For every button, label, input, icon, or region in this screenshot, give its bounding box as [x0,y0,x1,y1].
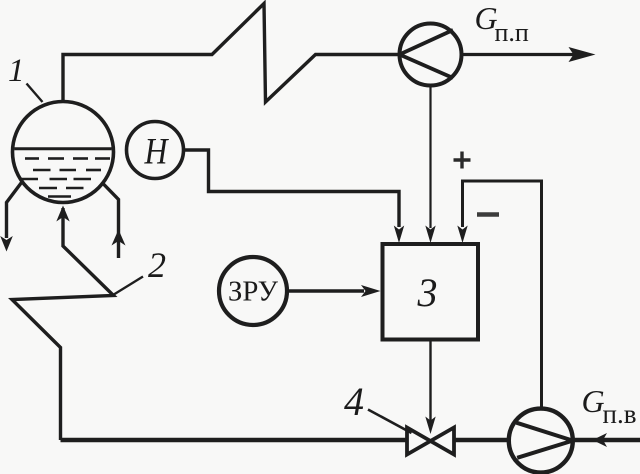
svg-text:1: 1 [8,53,25,89]
svg-text:G: G [582,383,605,419]
svg-text:4: 4 [344,379,364,424]
svg-text:ЗРУ: ЗРУ [228,276,278,308]
svg-text:2: 2 [148,245,166,285]
svg-text:H: H [144,132,170,173]
svg-text:п.в: п.в [603,399,637,429]
svg-text:3: 3 [417,270,438,315]
svg-text:п.п: п.п [495,18,529,47]
